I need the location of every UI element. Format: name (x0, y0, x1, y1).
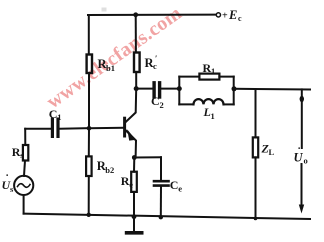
wire tank bottom right (224, 103, 234, 105)
resistor Rc (134, 53, 140, 73)
svg-text:·: · (298, 144, 301, 155)
wire tank left side (178, 77, 180, 105)
wire input left (25, 128, 51, 130)
resistor R1 (199, 74, 219, 80)
svg-text:′: ′ (155, 53, 157, 63)
svg-text:1: 1 (211, 111, 215, 121)
ground bar (127, 231, 142, 235)
wire top rail (88, 14, 216, 16)
svg-text:e: e (129, 180, 133, 190)
node tank left (177, 86, 182, 91)
svg-text:b2: b2 (105, 165, 114, 175)
node Ce / rail (159, 215, 163, 219)
wire base (89, 127, 123, 129)
wire bottom rail (24, 214, 310, 219)
wire Uo lower with arrowhead (301, 164, 303, 205)
resistor Rb2 (86, 156, 92, 176)
ground stub (133, 217, 135, 232)
wire Rb2 top (88, 128, 90, 156)
resistor Rb1 (87, 55, 92, 74)
wire tank top left (179, 76, 199, 78)
wire Ce top (160, 157, 162, 180)
wire tank top right (219, 76, 233, 78)
node Uo junction (300, 96, 304, 102)
transistor Q1 base bar (123, 118, 126, 136)
wire Re bottom to rail (133, 192, 135, 217)
node Re / rail (132, 214, 137, 219)
svg-text:C: C (49, 107, 58, 121)
resistor Rs (23, 145, 28, 161)
svg-text:C: C (151, 94, 160, 108)
wire C1 to base node (60, 127, 89, 130)
node emitter (132, 155, 137, 160)
capacitor C2 (152, 83, 155, 97)
node ZL / rail (254, 217, 258, 221)
node collector / C2 (134, 86, 139, 91)
wire Rb1 top (rail to Rb1) (88, 15, 90, 55)
wire ZL top (255, 89, 257, 137)
load ZL (253, 137, 258, 157)
transistor Q1 emitter wire (126, 131, 136, 158)
inductor L1 (194, 99, 224, 104)
source Us circle (14, 176, 33, 195)
wire tank bottom left (179, 103, 193, 105)
wire ZL bottom (255, 157, 257, 218)
svg-text:+: + (222, 11, 228, 22)
wire Rc top (rail to Rc) (135, 15, 137, 53)
node top rail / Rc (133, 12, 138, 17)
wire C2 to tank (162, 88, 180, 90)
svg-text:L: L (269, 147, 275, 157)
svg-text:E: E (228, 8, 237, 22)
svg-text:1: 1 (211, 66, 215, 76)
wire Rb1 bottom to base node (88, 74, 90, 129)
watermark www.elecfans.com (43, 2, 186, 113)
svg-text:1: 1 (57, 112, 61, 122)
svg-text:2: 2 (160, 100, 164, 110)
wire Uo upper (301, 89, 303, 148)
wire source to bottom rail (23, 195, 25, 214)
wire tank right side (233, 77, 235, 105)
node base (87, 126, 92, 131)
transistor Q1 emitter arrowhead (127, 129, 135, 140)
node tank right (232, 86, 237, 91)
wire emitter to Ce (134, 156, 161, 158)
wire Rb2 bottom to rail (88, 176, 90, 215)
capacitor Ce (154, 180, 169, 183)
resistor Re (131, 172, 137, 192)
wire Rs to source (24, 161, 25, 176)
arrowhead Uo (299, 205, 304, 214)
transistor Q1 collector wire (126, 89, 136, 122)
wire Ce bottom to rail (160, 187, 162, 217)
wire collector node to C2 (136, 88, 152, 90)
terminal +Ec circle (216, 13, 220, 17)
wire input corner down to Rs (24, 129, 26, 145)
source Us sine (18, 184, 31, 188)
node Rb2 / rail (87, 213, 91, 217)
svg-text:e: e (178, 184, 182, 194)
scan smudge (102, 8, 107, 12)
wire output rail (234, 88, 310, 91)
svg-text:c: c (238, 14, 242, 23)
svg-text:C: C (170, 178, 179, 192)
svg-text:b1: b1 (106, 63, 115, 73)
wire Rc bottom to collector node (135, 72, 137, 89)
wire emitter node to Re (133, 158, 135, 172)
capacitor C1 (51, 119, 54, 136)
svg-text:·: · (6, 171, 9, 182)
svg-text:o: o (304, 156, 308, 166)
